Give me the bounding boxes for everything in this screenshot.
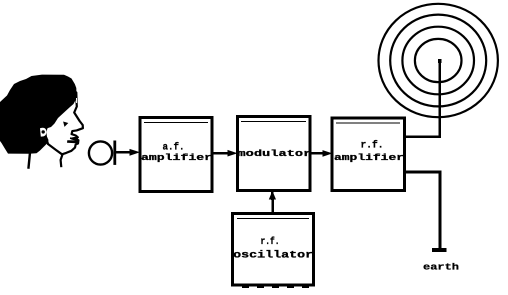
wire mic to a.f. amplifier xyxy=(116,151,132,153)
wire a.f. amplifier to modulator xyxy=(212,152,228,154)
svg-text:r.f.: r.f. xyxy=(261,236,280,248)
microphone xyxy=(89,141,116,165)
neck line right xyxy=(61,154,63,167)
wire modulator to r.f. amplifier xyxy=(310,152,323,154)
box r.f. amplifier xyxy=(332,118,405,191)
earth wire xyxy=(405,172,441,248)
box a.f. amplifier xyxy=(140,118,212,192)
arrowhead into r.f. amplifier xyxy=(323,150,333,157)
svg-text:r.f.: r.f. xyxy=(361,139,384,151)
ear xyxy=(40,128,47,137)
box r.f. oscillator xyxy=(233,214,314,288)
arrowhead into modulator xyxy=(228,150,238,157)
svg-text:earth: earth xyxy=(423,263,459,273)
wire oscillator to modulator xyxy=(271,192,274,214)
arrowhead into a.f. amplifier xyxy=(130,149,141,156)
forehead-profile sliver xyxy=(76,98,78,103)
arrowhead into modulator bottom xyxy=(269,191,276,200)
antenna lead wire xyxy=(405,60,440,137)
mouth xyxy=(67,138,79,143)
svg-text:modulator: modulator xyxy=(237,148,311,159)
earth symbol xyxy=(432,248,446,252)
svg-text:amplifier: amplifier xyxy=(141,152,212,163)
svg-text:amplifier: amplifier xyxy=(334,152,404,163)
speaker face xyxy=(45,88,83,154)
eye xyxy=(63,122,68,127)
speaker head hair xyxy=(0,75,77,154)
antenna feed point xyxy=(438,59,441,63)
antenna radiating circles xyxy=(379,4,498,117)
neck line left xyxy=(28,153,30,169)
svg-text:oscillator: oscillator xyxy=(233,250,313,262)
box modulator xyxy=(238,117,311,191)
